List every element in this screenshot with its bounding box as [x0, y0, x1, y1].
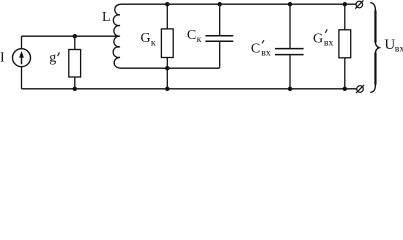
node: G'vx bottom junction dot	[343, 87, 347, 91]
svg-text:C: C	[187, 28, 196, 43]
svg-text:L: L	[102, 10, 111, 25]
node: Gk top junction dot	[165, 2, 169, 6]
wire: Gk top lead	[166, 4, 168, 29]
capacitor C'vx plates	[275, 48, 304, 50]
wire: C'vx top lead	[289, 4, 291, 48]
svg-text:вх: вх	[324, 38, 334, 49]
current source arrow	[21, 55, 23, 64]
resistor G'vx box	[339, 30, 351, 58]
wire: tank bottom line	[122, 67, 220, 69]
svg-text:вх: вх	[395, 44, 403, 55]
wire: C'vx bottom lead	[289, 55, 291, 89]
bottom rail	[22, 88, 357, 90]
capacitor Ck plates	[205, 35, 233, 37]
wire: vertical from tank line to bottom rail	[166, 68, 168, 89]
node: G'vx top junction dot	[343, 2, 347, 6]
wire: Ck top lead	[219, 4, 221, 35]
node: C'vx top junction dot	[288, 2, 292, 6]
svg-text:I: I	[0, 51, 5, 66]
svg-text:G: G	[313, 31, 323, 46]
wire: Gk bottom lead	[166, 58, 168, 69]
terminal: bottom output clamp	[357, 86, 364, 93]
wire: left vertical below current source	[21, 67, 23, 89]
brace for Uvx	[370, 3, 379, 93]
node: bottom rail junction dot at x167	[165, 87, 169, 91]
svg-text:G: G	[141, 31, 151, 46]
wire: g' bottom lead	[74, 77, 76, 89]
mid rail (tap wire from source section to coil tap)	[22, 35, 120, 37]
svg-text:к: к	[197, 34, 202, 45]
top rail	[122, 3, 356, 5]
wire: G'vx top lead	[344, 4, 346, 30]
node: g' top junction dot	[73, 34, 77, 38]
node: tank bottom junction dot	[165, 66, 169, 70]
svg-text:g: g	[49, 50, 56, 65]
resistor g' box	[69, 50, 81, 78]
node: C'vx bottom junction dot	[288, 87, 292, 91]
current source I circle	[13, 49, 31, 67]
svg-text:к: к	[151, 37, 156, 48]
wire: g' branch top lead	[74, 36, 76, 49]
inductor L coil	[113, 4, 122, 68]
node: Ck top junction dot	[218, 2, 222, 6]
resistor Gk box	[161, 29, 173, 58]
wire: Ck bottom lead	[219, 42, 221, 67]
wire: G'vx bottom lead	[344, 58, 346, 89]
wire: left vertical above current source	[21, 36, 23, 49]
terminal: top output clamp	[356, 1, 363, 8]
node: g' bottom junction dot	[73, 87, 77, 91]
svg-text:вх: вх	[261, 47, 271, 58]
svg-text:C: C	[251, 42, 260, 57]
